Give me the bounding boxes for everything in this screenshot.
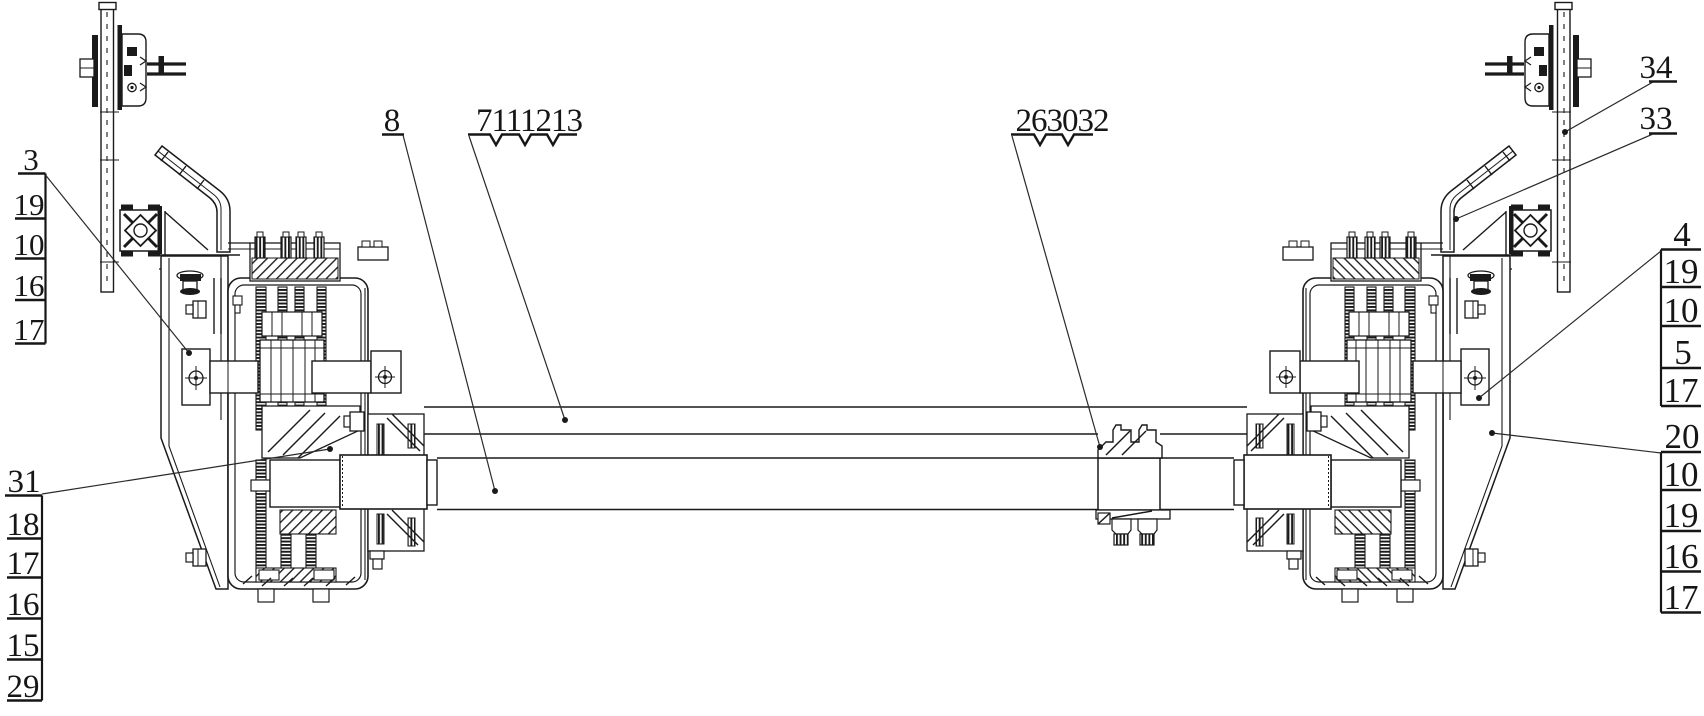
sprocket chain column (lower) [256,460,316,577]
lower cross band [256,568,336,582]
svg-text:5: 5 [1674,333,1692,372]
svg-text:10: 10 [1664,455,1699,494]
svg-text:10: 10 [1664,291,1699,330]
lower stud under bearing [370,551,384,569]
inner wall bolt [233,296,242,313]
leader 3 [46,175,193,356]
label 26 30 32 [1011,103,1109,450]
wheel mounting plate (vertical, edge-on) [99,3,119,293]
side plate bolt lower [186,549,206,566]
bracket right 2 [1660,452,1662,613]
sprocket chain columns (upper) [256,287,326,430]
coupling bottom flange [1096,510,1170,545]
mounting tab with hole (inner) [371,351,401,393]
left upright rib [214,278,221,334]
bracket line left top [44,174,46,344]
through bar inner (front) [312,361,371,393]
hub bracket on plate top [118,25,147,110]
coupling castellated cap [1098,425,1162,458]
bracket line left bottom [41,496,43,701]
kingpin rod [147,56,186,74]
right column group 2 [1489,417,1701,617]
gearbox outer side plate [161,256,228,589]
top studs [255,232,324,258]
label 33 [1453,101,1677,222]
sprocket cross block [262,312,322,336]
right column group 1 [1476,215,1701,410]
label 31 [5,464,42,500]
label 3 [18,142,46,177]
label 19 (left) [14,187,46,222]
bottom studs [243,576,355,602]
lower hatched band [280,510,336,534]
svg-text:19: 19 [1664,496,1699,535]
chain clamp tab [251,480,270,491]
svg-text:17: 17 [1664,578,1699,617]
gearbox housing [228,278,368,589]
label 17 (left lower) [7,546,43,582]
svg-text:19: 19 [14,187,45,222]
center coupling body [1098,458,1160,510]
mounting tab with hole (outer) [182,349,210,405]
svg-text:17: 17 [14,312,45,347]
svg-text:10: 10 [14,227,45,262]
svg-text:17: 17 [1664,371,1699,410]
label 8 [382,103,498,494]
arm bracket base [153,205,240,269]
side plate bolt upper [186,301,206,318]
leader 20 [1492,433,1661,453]
svg-text:16: 16 [14,268,45,303]
bracket right 1 [1660,250,1662,407]
axle tube top line [437,457,1234,459]
right assembly mirrored [1234,3,1591,603]
hub inner step [270,460,340,507]
clutch wedge block [262,406,360,458]
label 17 (left) [14,312,46,347]
label 7 11 12 13 [468,103,583,423]
middle pulley block [260,340,324,402]
tie rod top line [424,406,1247,408]
svg-text:33: 33 [1640,101,1673,137]
lower bearing block [368,508,424,551]
svg-text:19: 19 [1664,252,1699,291]
top right corner tab [358,241,388,260]
through bar outer (front) [210,361,258,393]
label 16 (left lower) [7,587,43,623]
axle tube bottom line [437,509,1234,511]
label 10 (left) [14,227,46,262]
axle collar [340,455,437,509]
svg-text:3: 3 [23,142,39,177]
inner bolt at axle [344,412,364,431]
svg-text:20: 20 [1665,417,1700,456]
bracket fastener washer and nut [177,271,203,295]
shaft upper line [424,433,1247,435]
leader 4 [1479,251,1661,398]
svg-text:4: 4 [1673,215,1691,254]
label 15 [7,628,43,664]
top cover band [228,243,340,281]
stub axle parts left of plate [80,35,98,107]
upper bearing block [368,414,424,457]
universal joint on plate [120,205,162,257]
label 34 [1562,50,1677,135]
label 16 (left) [14,268,46,303]
svg-text:16: 16 [1664,537,1699,576]
label 29 [7,669,43,705]
label 18 [7,507,43,543]
leader 31 [42,446,333,494]
bent support arm [155,146,230,252]
